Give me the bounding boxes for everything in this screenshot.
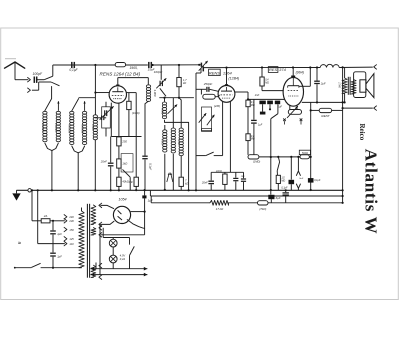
chassis line 1 [91, 267, 148, 271]
svg-text:RES: RES [269, 67, 278, 72]
label V3 374 [279, 67, 286, 72]
tube V3 cathode [288, 95, 298, 97]
capacitor C25 1uF [50, 253, 62, 269]
transformer T2 primary [79, 208, 84, 268]
capacitor C18 0.1uF [281, 157, 294, 190]
svg-text:50kΩ: 50kΩ [302, 151, 308, 155]
resistor R4 40k [117, 177, 129, 186]
resistor R15 bias [287, 106, 302, 118]
title Atlantis W [362, 149, 381, 235]
capacitor C19 0.1uF [308, 178, 321, 183]
bus connector ring [28, 189, 31, 192]
antenna A1 [5, 62, 25, 80]
resistor R1 1M [127, 93, 140, 137]
svg-text:RENS 1264 (12 B4): RENS 1264 (12 B4) [100, 71, 141, 76]
choke L12 [320, 64, 339, 67]
terminal X1 [283, 119, 286, 125]
capacitor C14 [267, 101, 273, 111]
coil L4 [68, 111, 74, 144]
voltage tap 240 [64, 215, 74, 220]
wire AF rail [259, 156, 300, 158]
coil L6 [91, 115, 97, 140]
choke L1 1965 [115, 63, 138, 71]
svg-text:1µF: 1µF [258, 124, 263, 127]
svg-text:0,00035: 0,00035 [41, 123, 44, 132]
wire spk bottom line [343, 107, 373, 109]
resistor R9 0.1M [246, 100, 255, 107]
svg-text:0,002: 0,002 [161, 139, 164, 146]
wire rail B2 left [151, 196, 210, 203]
wire V1 cathode stubs [111, 103, 119, 137]
tap chevrons W3 [99, 263, 102, 279]
label V2 (12B4) [228, 77, 239, 81]
svg-text:250: 250 [121, 139, 127, 143]
wire switch arm C [72, 99, 79, 111]
output transformer T1 primary [338, 67, 348, 102]
resistor R3 1k [117, 159, 128, 168]
tube V3 anode [288, 77, 299, 87]
wire osc left rail [195, 73, 197, 190]
svg-text:Reico: Reico [358, 124, 366, 141]
svg-text:1054: 1054 [118, 198, 126, 202]
wire anode branch to bus [135, 137, 137, 192]
svg-text:3.000: 3.000 [153, 90, 157, 97]
wire V3 screen [302, 101, 346, 103]
wire V4 loop [127, 220, 144, 229]
svg-text:5nF: 5nF [299, 178, 303, 180]
svg-text:(964): (964) [296, 70, 304, 74]
svg-text:(12B4): (12B4) [228, 77, 239, 81]
resistor R14 0.4M [260, 68, 269, 91]
wire top rail right [204, 66, 321, 68]
label V4 1054 [118, 198, 126, 202]
capacitor C0 0.1uF [69, 62, 78, 72]
coil L2 [41, 111, 47, 142]
tap chevrons W1 [99, 203, 102, 226]
svg-text:RENS: RENS [209, 70, 220, 75]
svg-text:2A: 2A [43, 214, 48, 218]
resistor R6 7k [179, 156, 188, 190]
label V3 RES [268, 67, 278, 73]
wire switch bus [79, 97, 96, 99]
wire heater rail [103, 237, 129, 239]
trimmer C3 [95, 116, 106, 121]
tube V3 [283, 77, 303, 106]
label pickup [299, 178, 303, 180]
capacitor C22 blob [268, 190, 280, 203]
wire P2 riser [32, 82, 60, 90]
page border frame [1, 28, 399, 300]
capacitor C16 blob [260, 112, 266, 115]
capacitor C4 0.1uF [142, 156, 152, 190]
coil L8 [160, 98, 166, 119]
output transformer T1 secondary [351, 80, 356, 95]
wire mains drop b [38, 190, 65, 243]
wire L2 L3 merge [45, 143, 58, 190]
wire screen drop [310, 102, 312, 191]
connector spk top [374, 65, 377, 69]
wire R4 bus [118, 186, 120, 190]
svg-text:240: 240 [68, 215, 74, 219]
lamp E1 [109, 238, 117, 248]
transformer T2 winding W3 [91, 265, 96, 277]
capacitor C17 1uF [251, 99, 263, 154]
resistor R18 7k pill [258, 201, 269, 211]
wire V4 heater top [101, 205, 114, 208]
svg-text:0,00018: 0,00018 [81, 124, 84, 133]
oscillator box [202, 107, 212, 131]
wire detector rail [247, 98, 285, 100]
switch S7 [130, 238, 135, 269]
wire switch arm D [83, 101, 85, 111]
ground symbol [12, 190, 20, 200]
arrow osc 2 [207, 115, 215, 126]
svg-text:20nF: 20nF [100, 159, 107, 163]
svg-text:(7kΩ): (7kΩ) [259, 207, 266, 211]
svg-text:1264: 1264 [223, 70, 233, 75]
capacitor C12 [241, 172, 246, 190]
label AC [18, 241, 21, 247]
padder loop [202, 129, 212, 132]
terminal X2 [300, 119, 303, 125]
svg-text:0,2A: 0,2A [120, 257, 126, 261]
svg-text:1µF: 1µF [57, 232, 62, 236]
svg-text:20nF: 20nF [201, 181, 208, 185]
transformer T2 winding W1 [91, 205, 96, 224]
wire antenna coil riser [94, 65, 96, 115]
tap chevrons W2 [99, 226, 102, 237]
capacitor C13 [259, 101, 265, 112]
wire choke to spk [339, 66, 373, 68]
trimmer C8 [199, 61, 208, 72]
svg-text:0,1µF: 0,1µF [314, 179, 321, 182]
resistor R16 RENT [311, 108, 343, 118]
svg-text:374: 374 [279, 67, 286, 72]
switch S3 [196, 152, 223, 156]
ground bus [17, 189, 343, 191]
svg-text:0,00035: 0,00035 [68, 124, 71, 133]
output transformer T1 core [348, 77, 350, 95]
svg-text:0,1µF: 0,1µF [281, 186, 288, 189]
wire osc jog [196, 68, 201, 73]
label V2 RENS [209, 69, 221, 75]
svg-text:Atlantis W: Atlantis W [362, 149, 381, 235]
voltage tap 150 [64, 227, 74, 232]
transformer T2 core [87, 204, 89, 278]
wire antenna to plug [15, 79, 28, 81]
wire IF bus [159, 97, 194, 99]
trimmer C5 [100, 102, 114, 137]
label V1 RENS 1264 (12 B4) [100, 71, 141, 76]
wire W2 to C21 [101, 234, 145, 236]
fuse F1 2A [32, 214, 65, 223]
wire L4 L5 merge [72, 146, 85, 190]
wire lamps [112, 247, 114, 255]
capacitor C15 [275, 101, 283, 109]
wire heater drop b [99, 224, 101, 274]
capacitor C23 6uF [283, 190, 289, 203]
wire R10 down [247, 141, 249, 155]
wire V3 top cap [291, 68, 295, 78]
tube V3 cathode stubs [290, 106, 297, 110]
resistor R2 250 [117, 137, 128, 146]
resistor R12 [276, 175, 285, 190]
margin tick [5, 58, 16, 60]
wire R9 down [247, 107, 249, 134]
wire V1 bottom rail [111, 136, 141, 138]
wire V1 grid left [94, 91, 109, 93]
coil L9 [161, 125, 167, 152]
label V3 (964) [296, 70, 304, 74]
switch S5 [277, 157, 279, 175]
capacitor C21 1uF [142, 190, 153, 235]
arrow osc 1 [199, 113, 207, 123]
svg-text:kΩ: kΩ [183, 81, 186, 85]
speaker LS1 [360, 74, 374, 98]
bus junction dots [51, 189, 287, 191]
svg-text:22kΩ: 22kΩ [215, 170, 222, 173]
switch S4 [270, 104, 278, 191]
lamp E2 [109, 255, 117, 269]
svg-text:110: 110 [69, 242, 74, 246]
wire under V2 [211, 171, 243, 173]
resistor R5 1.7k [177, 64, 187, 98]
wire rail B1 [150, 190, 343, 197]
svg-text:MΩ: MΩ [265, 81, 269, 84]
tube V1 [109, 85, 126, 104]
node top rail dots [94, 64, 200, 66]
wire C1 to node [37, 76, 53, 80]
switch S2 [160, 88, 166, 96]
label V2 1264 [223, 70, 233, 75]
coil L11 [177, 98, 183, 156]
wire heater drop a [102, 228, 104, 238]
svg-text:4,5V: 4,5V [120, 253, 126, 257]
label 2nF [254, 93, 260, 97]
wire rail B2 right [268, 202, 344, 204]
coil L10 [171, 98, 175, 153]
connector plug P2 [28, 88, 31, 92]
svg-text:1µF: 1µF [148, 199, 153, 203]
wire speaker drop [342, 67, 344, 202]
svg-text:1µF: 1µF [278, 106, 283, 109]
capacitor C24 1uF [50, 220, 62, 253]
svg-text:(1MΩ): (1MΩ) [253, 159, 260, 163]
voltage tap 125 [64, 237, 74, 242]
svg-text:kΩ: kΩ [185, 182, 188, 186]
transformer T2 winding W2 [91, 228, 96, 235]
capacitor C1 100pF [32, 72, 43, 83]
coil L3 [54, 111, 60, 142]
svg-text:0,1µF: 0,1µF [148, 163, 152, 170]
switch S1 box [121, 154, 133, 172]
wire switch arm B [57, 101, 59, 111]
svg-text:40kΩ: 40kΩ [122, 180, 128, 184]
wire R2 R3 [118, 146, 120, 159]
label lamps [120, 253, 126, 260]
wire to arrow line [95, 263, 97, 269]
wire top rail left [53, 65, 202, 76]
resistor R8 22k [215, 170, 227, 190]
wire R3 R4 [118, 168, 120, 177]
wire V4 anode out [131, 211, 146, 213]
capacitor C20 2uF [314, 68, 326, 103]
voltage tap 230 [64, 219, 74, 224]
coil L7 3000 [146, 85, 156, 102]
wire V1 anode [127, 93, 137, 137]
svg-text:125: 125 [69, 237, 74, 241]
svg-text:RENT: RENT [321, 114, 330, 118]
svg-text:MΩ: MΩ [281, 180, 285, 183]
svg-text:1kΩ: 1kΩ [122, 161, 127, 165]
wire L10 down [172, 154, 174, 191]
capacitor C11 100pF [233, 172, 245, 190]
wire V3 grid in [262, 90, 284, 92]
resistor R7 pill [201, 89, 220, 108]
resistor R17 17k 7W [210, 200, 229, 210]
wire V2 anode [235, 92, 248, 100]
svg-text:0,003: 0,003 [177, 139, 180, 146]
svg-text:0,00018: 0,00018 [54, 123, 57, 132]
svg-text:1740: 1740 [338, 82, 341, 88]
wire L9 to bus [164, 154, 166, 191]
arrow contact pair [167, 173, 173, 182]
svg-text:6µF: 6µF [276, 196, 281, 200]
switch S1 [123, 169, 131, 190]
pickup jack lower [296, 184, 300, 190]
tube V4 [113, 206, 130, 223]
svg-text:100pF: 100pF [32, 72, 43, 76]
connector plug P1 [28, 78, 31, 82]
wire R13 right [309, 156, 310, 158]
pickup jack upper [296, 157, 300, 176]
svg-text:(2M): (2M) [214, 104, 220, 108]
wire mains drop a [31, 189, 39, 221]
svg-text:1965,: 1965, [129, 66, 137, 70]
resistor R10 0.2M [246, 134, 255, 141]
resistor R13 50k box [299, 150, 310, 159]
svg-text:250pF: 250pF [203, 82, 213, 86]
svg-text:17 kΩ: 17 kΩ [216, 207, 224, 211]
arrow coupling L8 [168, 105, 178, 114]
resistor R11 pill [248, 155, 260, 164]
wire V2 cathode a [222, 101, 224, 155]
svg-text:0,1µF: 0,1µF [69, 68, 78, 72]
wire rail B2 mid [229, 202, 258, 204]
svg-text:0,030: 0,030 [91, 124, 94, 131]
tube V4 electrodes [118, 210, 122, 220]
trimmer C5 box [102, 107, 111, 128]
wire V4 heater bottom [101, 221, 114, 224]
svg-text:(1MΩ): (1MΩ) [132, 111, 140, 115]
wire L8 frame [165, 120, 189, 190]
wire switch arm A [45, 87, 52, 111]
svg-text:0,003: 0,003 [160, 108, 163, 115]
speaker loop [354, 72, 366, 98]
capacitor C2 15pF [148, 62, 155, 72]
wire L6 to bus [94, 140, 96, 191]
trimmer C7 100pF [154, 65, 167, 88]
capacitor C10 20nF [201, 172, 214, 190]
svg-text:150: 150 [69, 228, 74, 232]
capacitor C6 20nF [100, 137, 114, 191]
title Reico [358, 124, 366, 141]
chassis line 2 [91, 273, 148, 277]
tube V3 grid [288, 90, 299, 92]
voltage tap 110 [64, 241, 74, 246]
mains switch S6 [14, 263, 82, 268]
tube V2 [218, 84, 235, 102]
connector spk bottom [374, 106, 377, 110]
svg-text:4nF: 4nF [129, 181, 134, 184]
svg-text:2nF: 2nF [254, 93, 260, 97]
wire V2 grid riser [226, 68, 228, 86]
wire V3 anode out [299, 68, 310, 87]
wire L7 down [145, 101, 148, 155]
svg-text:230: 230 [68, 219, 74, 223]
wire V1 grid cap [118, 78, 149, 86]
svg-text:2µF: 2µF [320, 81, 326, 85]
resistor R19 [129, 177, 139, 190]
wire V2 cathode b [229, 102, 231, 173]
capacitor C9 250pF [196, 82, 218, 92]
svg-text:≈: ≈ [18, 241, 21, 247]
coil L5 [81, 111, 87, 144]
svg-text:1µF: 1µF [57, 254, 62, 258]
